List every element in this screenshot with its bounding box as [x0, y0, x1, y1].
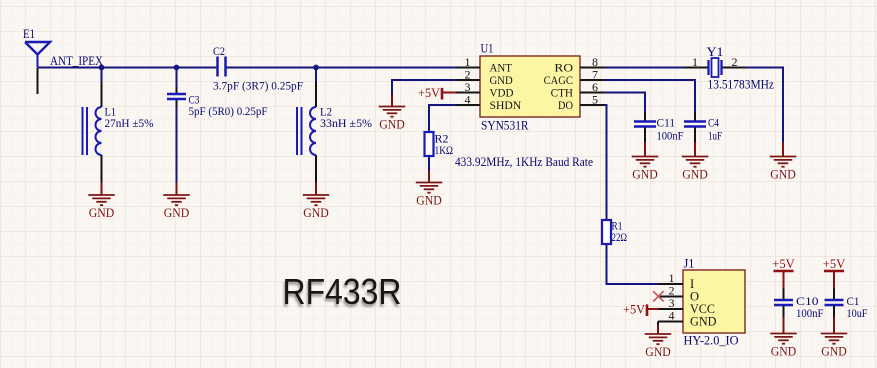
wire U1 pin 6 CTH to C11	[604, 93, 645, 113]
svg-text:GND: GND	[682, 167, 708, 181]
capacitor C2	[218, 57, 226, 77]
power +5V above C10	[772, 256, 795, 288]
crystal Y1 pins	[684, 67, 746, 69]
wire to L1	[101, 68, 103, 83]
junction node at L1 branch	[99, 65, 105, 71]
Y1 pin numbers 1 2	[692, 55, 738, 69]
label R2 value 1K	[435, 132, 454, 158]
svg-text:GND: GND	[632, 167, 658, 181]
junction node at C3 branch	[174, 65, 180, 71]
antenna E1	[23, 27, 50, 67]
wire to C3	[176, 68, 178, 88]
svg-text:2: 2	[732, 55, 738, 69]
svg-text:GND: GND	[379, 117, 405, 131]
svg-text:GND: GND	[303, 206, 329, 220]
svg-text:1KΩ: 1KΩ	[435, 145, 454, 157]
ground GND under C1	[821, 317, 848, 358]
U1 right pin numbers 8 7 6 5	[592, 55, 598, 107]
svg-text:13.51783MHz: 13.51783MHz	[708, 78, 775, 92]
power +5V at U1 pin 3	[418, 85, 456, 100]
svg-text:100nF: 100nF	[796, 306, 824, 320]
wire J1 pin 4 to ground	[657, 322, 659, 326]
svg-text:4: 4	[465, 93, 471, 107]
ground GND under Y1 net	[770, 142, 797, 181]
label C3 value 5pF	[189, 93, 268, 119]
svg-text:ANT_IPEX: ANT_IPEX	[50, 54, 103, 68]
wire Y1 pin 2 to ground	[746, 68, 783, 143]
no connect X at J1 pin 2	[653, 291, 663, 301]
capacitor C10	[774, 300, 793, 305]
svg-text:R2: R2	[435, 132, 449, 146]
svg-text:C2: C2	[213, 44, 225, 58]
U1 left pin numbers 1 2 3 4	[465, 55, 471, 107]
wire C2 to U1 pin 1	[226, 67, 457, 69]
wire ANT_IPEX from antenna to C2	[38, 67, 218, 69]
label C4 value 1uF	[708, 116, 722, 143]
svg-text:GND: GND	[416, 193, 442, 207]
svg-text:HY-2.0_IO: HY-2.0_IO	[684, 334, 739, 348]
antenna pin stub	[37, 68, 39, 95]
U1 right pins 8-5	[580, 68, 604, 106]
svg-text:U1: U1	[481, 41, 494, 56]
svg-text:5: 5	[592, 93, 598, 107]
ground GND under C10	[770, 317, 797, 358]
label C1 value 10uF	[847, 294, 868, 320]
wire U1 pin 7 CAGC to C4	[604, 80, 695, 112]
inductor L1 pins	[101, 82, 103, 183]
svg-text:+5V: +5V	[623, 301, 646, 316]
U1 left pin names ANT GND VDD SHDN	[490, 61, 522, 113]
label C2 value 3.7pF	[213, 44, 303, 93]
connector J1 HY-2.0_IO body	[683, 270, 745, 333]
label Y1 value 13.51783MHz	[707, 45, 775, 92]
capacitor C4 pins	[694, 112, 696, 142]
capacitor C11 pins	[644, 112, 646, 142]
wire R2 to ground	[428, 156, 430, 171]
svg-text:RF433R: RF433R	[283, 271, 402, 312]
power +5V at J1 pin 3	[623, 301, 659, 316]
wire to L2	[315, 68, 317, 83]
label L2 value 33nH	[320, 105, 372, 131]
label C10 value 100nF	[796, 294, 824, 320]
svg-text:GND: GND	[89, 206, 115, 220]
ground GND at J1 pin 4	[645, 325, 672, 359]
svg-text:Y1: Y1	[707, 45, 724, 59]
ground GND under C3	[163, 183, 190, 220]
ground GND under L1	[88, 183, 115, 220]
svg-text:10uF: 10uF	[847, 306, 868, 320]
wire U1 pin 4 to R2	[429, 105, 456, 132]
svg-text:GND: GND	[645, 345, 671, 359]
svg-text:SHDN: SHDN	[490, 98, 522, 112]
wire U1 pin 2 to ground	[392, 80, 456, 95]
ground GND at U1 pin 2	[379, 95, 406, 131]
crystal Y1	[709, 58, 722, 77]
inductor L2	[297, 107, 316, 155]
svg-text:4: 4	[669, 309, 675, 323]
svg-text:GND: GND	[771, 344, 797, 358]
svg-text:+5V: +5V	[823, 256, 846, 271]
capacitor C3 pins	[176, 87, 178, 107]
capacitor C1	[825, 300, 844, 305]
svg-text:433.92MHz, 1KHz Baud Rate: 433.92MHz, 1KHz Baud Rate	[455, 155, 593, 169]
svg-text:SYN531R: SYN531R	[481, 119, 529, 133]
U1 left pins 1-4	[456, 68, 480, 106]
svg-text:GND: GND	[770, 167, 796, 181]
svg-text:+5V: +5V	[418, 85, 441, 100]
svg-text:33nH ±5%: 33nH ±5%	[320, 116, 372, 130]
svg-text:J1: J1	[684, 257, 695, 271]
power +5V above C1	[823, 256, 846, 288]
capacitor C10 pins	[783, 288, 785, 317]
label C11 value 100nF	[657, 116, 684, 143]
resistor R1	[602, 220, 611, 244]
wire C3 to ground	[176, 107, 178, 183]
capacitor C11	[634, 122, 656, 127]
svg-text:C4: C4	[708, 116, 719, 130]
svg-text:27nH ±5%: 27nH ±5%	[105, 116, 154, 130]
svg-text:+5V: +5V	[772, 256, 795, 271]
J1 pin names I O VCC GND	[690, 277, 717, 329]
capacitor C1 pins	[833, 288, 835, 317]
svg-text:3.7pF (3R7) 0.25pF: 3.7pF (3R7) 0.25pF	[213, 79, 303, 93]
ground GND under L2	[303, 183, 330, 220]
J1 pin numbers 1 2 3 4	[669, 271, 675, 323]
svg-text:GND: GND	[821, 344, 847, 358]
label L1 value 27nH	[105, 105, 154, 131]
op-amp U1 SYN531R body	[480, 56, 580, 117]
ground GND under C4	[682, 142, 709, 181]
svg-text:C11: C11	[657, 116, 676, 130]
svg-text:22Ω: 22Ω	[612, 232, 628, 244]
J1 pins 1-4	[658, 284, 683, 322]
wire R1 to J1 pin 1	[607, 244, 659, 284]
svg-text:GND: GND	[164, 206, 190, 220]
wire U1 pin 5 DO to R1	[604, 105, 607, 220]
capacitor C4	[684, 122, 706, 127]
capacitor C3	[167, 94, 186, 99]
wire U1 pin 8 RO to Y1	[604, 67, 684, 69]
inductor L2 pins	[315, 82, 317, 183]
U1 right pin names RO CAGC CTH DO	[544, 61, 574, 113]
label R1 value 22	[612, 219, 628, 245]
svg-text:GND: GND	[690, 315, 717, 329]
inductor L1	[83, 107, 102, 155]
junction node at L2 branch	[313, 65, 319, 71]
svg-text:5pF (5R0) 0.25pF: 5pF (5R0) 0.25pF	[189, 104, 268, 118]
svg-text:1: 1	[692, 55, 698, 69]
ground GND under C11	[632, 142, 659, 181]
svg-text:R1: R1	[612, 219, 623, 233]
svg-text:1uF: 1uF	[708, 129, 722, 143]
svg-text:E1: E1	[23, 27, 35, 41]
resistor R2	[425, 132, 434, 156]
svg-text:DO: DO	[558, 98, 573, 112]
ground GND under R2	[416, 171, 443, 207]
svg-text:100nF: 100nF	[657, 129, 684, 143]
